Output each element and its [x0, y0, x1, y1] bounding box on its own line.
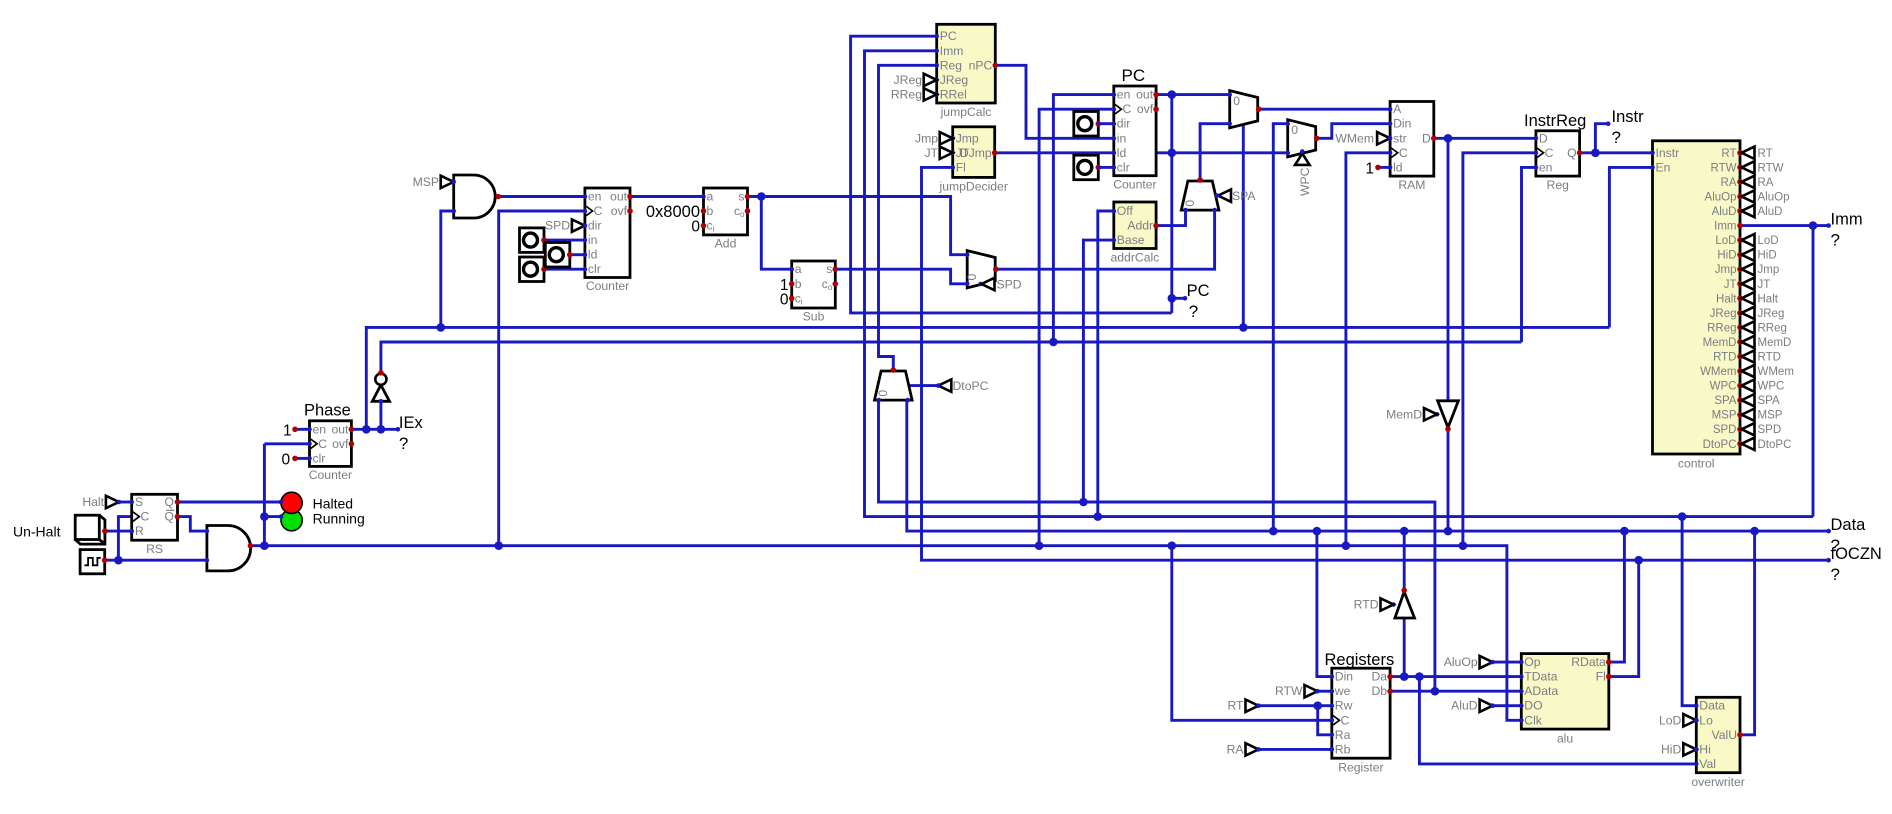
svg-text:Halt: Halt — [1716, 293, 1737, 305]
svg-text:WPC: WPC — [1298, 167, 1312, 196]
svg-text:WMem: WMem — [1335, 131, 1374, 145]
wire: addrCalc.Addr to SPA mux in0 — [1156, 210, 1185, 225]
button Un-Halt — [13, 515, 108, 544]
block addrCalc — [1111, 202, 1160, 265]
svg-text:Addr: Addr — [1127, 219, 1153, 233]
svg-text:RReg: RReg — [1707, 322, 1736, 334]
svg-text:C: C — [1341, 713, 1350, 727]
svg-text:Halt: Halt — [1758, 293, 1779, 305]
svg-text:AluD: AluD — [1758, 206, 1783, 218]
svg-text:dir: dir — [1117, 117, 1131, 131]
button B2 (SP counter clr) — [520, 257, 547, 282]
svg-text:out: out — [331, 422, 349, 436]
tunnel SPA (mux select) — [1215, 189, 1257, 203]
svg-text:RRel: RRel — [940, 87, 967, 101]
wire: RT tunnel to Register.Rw and Ra — [1259, 701, 1332, 734]
svg-text:ovf: ovf — [332, 437, 349, 451]
svg-text:b: b — [795, 277, 802, 291]
control output tunnels — [1742, 147, 1794, 451]
svg-text:Rb: Rb — [1335, 742, 1351, 756]
svg-text:ld: ld — [1117, 146, 1127, 160]
svg-text:addrCalc: addrCalc — [1111, 251, 1160, 265]
block control (instruction decoder) — [1650, 141, 1743, 471]
tunnel AluOp (to alu.Op) — [1444, 655, 1495, 669]
svg-text:DtoPC: DtoPC — [953, 379, 989, 393]
svg-text:JReg: JReg — [940, 73, 968, 87]
wire: Imm net (control.Imm, k35 bus, jumpCalc.Imm, addrCalc.Off, overwriter.Data) — [865, 51, 1831, 706]
tunnel MSP (to AND gate) — [413, 175, 456, 189]
label Halted / Running — [313, 495, 365, 526]
svg-text:Fl: Fl — [1596, 670, 1606, 684]
wire: mux1 out to RAM.A — [1259, 108, 1391, 111]
svg-text:Halt: Halt — [82, 495, 104, 509]
wire: AluOp tunnel to alu.Op — [1493, 661, 1522, 664]
svg-text:?: ? — [1189, 302, 1198, 321]
svg-text:AluD: AluD — [1451, 699, 1478, 713]
svg-text:s: s — [826, 262, 832, 276]
svg-text:DtoPC: DtoPC — [1758, 439, 1792, 451]
counter PC — [1112, 66, 1159, 192]
AND gate (clock gate) — [205, 526, 254, 571]
svg-text:IEx: IEx — [399, 414, 424, 432]
svg-text:Imm: Imm — [1831, 210, 1863, 228]
wire: SP counter out to Add.a — [630, 195, 704, 198]
svg-text:Jmp: Jmp — [1758, 264, 1780, 276]
svg-text:Off: Off — [1117, 204, 1134, 218]
wire: fOCZN net (k38 bus, jumpDecider.Fl, alu.Fl) — [922, 167, 1831, 676]
svg-text:1: 1 — [1365, 160, 1374, 177]
svg-text:Un-Halt: Un-Halt — [13, 524, 61, 540]
svg-text:JT: JT — [924, 146, 938, 160]
svg-text:RS: RS — [146, 542, 163, 556]
constant 0 (Phase.clr) — [282, 451, 298, 468]
svg-text:WPC: WPC — [1758, 381, 1785, 393]
svg-text:0: 0 — [1183, 200, 1197, 207]
svg-text:overwriter: overwriter — [1691, 775, 1745, 789]
wire: Sub.s to SPD mux in1 — [835, 269, 967, 284]
block alu — [1519, 654, 1612, 746]
svg-text:Ra: Ra — [1335, 728, 1351, 742]
svg-text:RData: RData — [1571, 655, 1606, 669]
clock CLK1 — [80, 550, 107, 574]
constant 1 (Phase.en) — [283, 422, 298, 439]
svg-text:PC: PC — [940, 29, 957, 43]
svg-text:Jmp: Jmp — [956, 131, 979, 145]
svg-text:DO: DO — [1524, 699, 1542, 713]
svg-text:RTD: RTD — [1758, 352, 1781, 364]
svg-text:s: s — [738, 190, 744, 204]
svg-text:MSP: MSP — [1758, 410, 1783, 422]
svg-text:HiD: HiD — [1758, 250, 1777, 262]
svg-text:Jmp: Jmp — [915, 131, 938, 145]
mux M1 (RAM address select) — [1230, 91, 1258, 128]
svg-text:TData: TData — [1524, 670, 1557, 684]
svg-text:RT: RT — [1227, 699, 1244, 713]
subtractor Sub (decrement) — [789, 261, 838, 324]
svg-text:JT: JT — [1724, 279, 1737, 291]
svg-text:JReg: JReg — [894, 73, 922, 87]
svg-text:Din: Din — [1393, 117, 1411, 131]
svg-text:SPA: SPA — [1758, 395, 1780, 407]
svg-text:PC: PC — [1187, 282, 1210, 300]
svg-text:Reg: Reg — [1547, 178, 1569, 192]
svg-text:JReg: JReg — [1758, 308, 1785, 320]
tunnel MemD — [1386, 407, 1437, 421]
svg-text:S: S — [135, 495, 143, 509]
tunnel JT (to jumpDecider) — [924, 146, 952, 160]
block jumpDecider — [938, 127, 1007, 194]
probe Instr — [1612, 108, 1645, 147]
wire: SPA mux out to mux1.in1 — [1200, 124, 1230, 181]
svg-text:1: 1 — [283, 422, 292, 439]
svg-text:0: 0 — [780, 291, 789, 308]
svg-text:Registers: Registers — [1325, 651, 1395, 669]
tunnel WPC (mux2 select) — [1295, 149, 1312, 196]
wire: nPC from jumpCalc to PC counter in — [995, 65, 1114, 138]
svg-text:Halted: Halted — [313, 495, 353, 511]
svg-text:Q: Q — [165, 495, 174, 509]
svg-text:Reg: Reg — [940, 58, 962, 72]
svg-text:C: C — [1123, 102, 1132, 116]
tunnel RTW (to Register.we) — [1275, 684, 1320, 698]
counter SP (stack pointer) — [583, 188, 633, 293]
probe fOCZN — [1831, 545, 1882, 584]
wire: RTW tunnel to Register.we — [1318, 690, 1332, 693]
constant 1 (RAM.ld) — [1365, 160, 1380, 177]
svg-text:RReg: RReg — [891, 87, 922, 101]
svg-text:ld: ld — [588, 248, 598, 262]
svg-text:D: D — [1422, 131, 1431, 145]
tunnel SPD (to SP counter dir) — [545, 219, 585, 233]
adder Add (SP + 0x8000) — [701, 188, 750, 251]
tunnel HiD (to overwriter.Hi) — [1661, 742, 1699, 756]
svg-text:LoD: LoD — [1659, 713, 1682, 727]
svg-text:RT: RT — [1758, 148, 1773, 160]
svg-text:Din: Din — [1335, 670, 1353, 684]
svg-text:?: ? — [1831, 565, 1840, 584]
probe Data — [1831, 516, 1867, 555]
wire: Instr net (InstrReg.Q to control.Instr and probe) — [1580, 121, 1653, 157]
svg-text:Phase: Phase — [304, 401, 351, 419]
svg-text:Q: Q — [165, 510, 174, 524]
svg-text:clr: clr — [313, 451, 326, 465]
svg-text:jumpDecider: jumpDecider — [938, 180, 1007, 194]
register file Registers — [1325, 651, 1395, 775]
svg-text:MemD: MemD — [1386, 407, 1422, 421]
svg-text:Counter: Counter — [586, 279, 629, 293]
svg-text:RReg: RReg — [1758, 322, 1787, 334]
svg-text:en: en — [1117, 88, 1131, 102]
svg-text:Imm: Imm — [940, 44, 964, 58]
button B3 (SP counter ld) — [545, 243, 572, 268]
svg-text:SPD: SPD — [1758, 424, 1782, 436]
svg-text:RTW: RTW — [1275, 684, 1303, 698]
wire: mux2 out to RAM.Din — [1318, 124, 1391, 139]
svg-text:LoD: LoD — [1758, 235, 1779, 247]
wire: RAM.D to InstrReg.D and MemD driver — [1434, 134, 1536, 401]
flip-flop RS — [129, 494, 180, 556]
svg-text:Hi: Hi — [1699, 742, 1711, 756]
tunnel RReg (to jumpCalc.RRel) — [891, 87, 937, 101]
svg-text:a: a — [795, 262, 802, 276]
tunnel AluD (to alu.DO) — [1451, 699, 1495, 713]
svg-text:Rw: Rw — [1335, 699, 1353, 713]
svg-text:Jmp: Jmp — [1715, 264, 1737, 276]
svg-text:RTD: RTD — [1713, 352, 1736, 364]
svg-text:b: b — [707, 204, 714, 218]
svg-text:AluD: AluD — [1712, 206, 1737, 218]
button B4 (PC dir) — [1074, 112, 1114, 137]
svg-text:0: 0 — [282, 451, 291, 468]
constant 0x8000 (Add.b) — [646, 203, 706, 221]
svg-text:Instr: Instr — [1612, 108, 1645, 126]
wire: RA tunnel to Register.Rb — [1259, 748, 1332, 751]
wire: Phase counter constants — [295, 429, 310, 458]
LED Running (green) — [279, 510, 303, 531]
driver RTD (register T to Data bus) — [1391, 588, 1414, 619]
constant 1 (Sub.b) — [780, 277, 795, 294]
svg-text:?: ? — [1612, 128, 1621, 147]
svg-text:?: ? — [399, 434, 408, 453]
svg-text:RT: RT — [1721, 148, 1736, 160]
tunnel Halt (to RS.S) — [82, 495, 121, 509]
svg-text:Running: Running — [313, 510, 365, 526]
constant 0 (Add.ci) — [691, 219, 706, 236]
tunnel RTD — [1354, 598, 1394, 612]
tunnel RT (to Register.Rw) — [1227, 699, 1260, 713]
svg-text:a: a — [707, 190, 714, 204]
LED Halted (red) — [279, 492, 303, 513]
svg-text:Instr: Instr — [1656, 146, 1680, 160]
svg-text:En: En — [1656, 160, 1671, 174]
svg-text:out: out — [1136, 88, 1154, 102]
svg-text:MSP: MSP — [1712, 410, 1737, 422]
svg-text:JT: JT — [1758, 279, 1771, 291]
wire: WMem tunnel to RAM.str — [1376, 137, 1390, 140]
svg-text:MSP: MSP — [413, 175, 439, 189]
svg-text:en: en — [313, 422, 327, 436]
probe PC — [1187, 282, 1210, 321]
inverter NOT (IEx to nIEx) — [372, 370, 389, 404]
svg-text:in: in — [588, 233, 598, 247]
svg-text:dir: dir — [588, 219, 602, 233]
mux SPA (stack pointer address) — [1181, 181, 1219, 210]
block jumpCalc — [934, 24, 998, 119]
svg-text:clr: clr — [1117, 160, 1130, 174]
memory RAM — [1388, 102, 1437, 193]
svg-text:in: in — [1117, 131, 1127, 145]
svg-text:AluOp: AluOp — [1444, 655, 1478, 669]
svg-text:Da: Da — [1372, 670, 1388, 684]
svg-text:Sub: Sub — [803, 310, 825, 324]
svg-text:fOCZN: fOCZN — [1831, 545, 1882, 563]
svg-text:RTW: RTW — [1758, 162, 1784, 174]
svg-text:Db: Db — [1372, 684, 1388, 698]
wire: AluD tunnel to alu.DO — [1493, 704, 1522, 707]
svg-text:RA: RA — [1721, 177, 1737, 189]
svg-text:0: 0 — [1233, 94, 1240, 108]
svg-text:MemD: MemD — [1758, 337, 1792, 349]
svg-text:RA: RA — [1758, 177, 1774, 189]
wire: clock net (AND output bus to all C pins) — [104, 109, 1536, 720]
wire: DJmp from jumpDecider to PC.ld — [995, 151, 1114, 154]
svg-text:RTD: RTD — [1354, 598, 1379, 612]
svg-text:?: ? — [1831, 230, 1840, 249]
wire: MSP AND gate inputs/output — [443, 182, 585, 197]
svg-text:PC: PC — [1122, 66, 1146, 85]
svg-text:AluOp: AluOp — [1758, 192, 1790, 204]
svg-text:Clk: Clk — [1524, 713, 1543, 727]
counter Phase — [304, 401, 354, 482]
svg-text:RTW: RTW — [1711, 162, 1737, 174]
register InstrReg — [1524, 112, 1586, 192]
tunnel LoD (to overwriter.Lo) — [1659, 713, 1699, 727]
svg-text:SPD: SPD — [997, 278, 1022, 292]
svg-text:WMem: WMem — [1758, 366, 1794, 378]
svg-text:en: en — [1539, 160, 1553, 174]
svg-text:0: 0 — [691, 219, 700, 236]
svg-text:control: control — [1678, 457, 1715, 471]
svg-text:ld: ld — [1393, 160, 1403, 174]
svg-text:C: C — [318, 437, 327, 451]
svg-text:ValU: ValU — [1711, 728, 1737, 742]
svg-text:WPC: WPC — [1710, 381, 1737, 393]
tunnel WMem (to RAM.str) — [1335, 131, 1390, 145]
svg-text:RAM: RAM — [1398, 178, 1425, 192]
svg-text:nPC: nPC — [969, 58, 993, 72]
svg-text:C: C — [1545, 146, 1554, 160]
svg-text:C: C — [1399, 146, 1408, 160]
wire: inverted IEx net (k23 bus to PC.en and InstrReg.en) — [377, 95, 1536, 434]
svg-text:C: C — [141, 510, 150, 524]
button B1 (SP counter in) — [520, 228, 547, 253]
svg-text:Val: Val — [1699, 757, 1716, 771]
AND gate (MSP and IEx) — [451, 175, 501, 218]
wire: Db bus net (k34, Register.Db to DtoPC.in0 and addrCalc.Base) — [879, 240, 1440, 695]
svg-text:0: 0 — [965, 274, 979, 281]
svg-text:Data: Data — [1831, 516, 1867, 534]
svg-text:R: R — [135, 524, 144, 538]
svg-text:Register: Register — [1338, 761, 1383, 775]
wire: Register Da to alu.TData, RTD driver, overwriter.Val — [1390, 618, 1696, 764]
svg-text:DtoPC: DtoPC — [1703, 439, 1737, 451]
tunnel SPD (mux select) — [982, 278, 1022, 292]
svg-text:DJmp: DJmp — [960, 146, 992, 160]
tunnel DtoPC (mux select) — [936, 379, 989, 393]
svg-text:AData: AData — [1524, 684, 1558, 698]
svg-text:LoD: LoD — [1715, 235, 1736, 247]
wire: SPD mux out to SPA mux in1 — [995, 210, 1214, 269]
wire: Add.s to Sub.a and SPD mux in0 — [748, 192, 968, 269]
svg-text:AluOp: AluOp — [1705, 192, 1737, 204]
svg-text:clr: clr — [588, 262, 601, 276]
svg-text:JReg: JReg — [1710, 308, 1737, 320]
wire: jumpCalc.Reg from DtoPC mux output — [879, 65, 937, 370]
svg-text:en: en — [588, 190, 602, 204]
svg-text:jumpCalc: jumpCalc — [940, 105, 992, 119]
svg-text:MemD: MemD — [1703, 337, 1737, 349]
wire: DtoPC mux select to tunnel — [910, 384, 939, 387]
svg-text:HiD: HiD — [1717, 250, 1736, 262]
wire: Data bus net (k36) — [907, 124, 1831, 735]
svg-text:Base: Base — [1117, 233, 1145, 247]
svg-text:Counter: Counter — [309, 468, 352, 482]
svg-text:A: A — [1393, 102, 1402, 116]
probe IEx — [399, 414, 424, 453]
tunnel RA (to Register.Rb) — [1227, 742, 1261, 756]
svg-text:0: 0 — [876, 390, 890, 397]
block overwriter — [1691, 697, 1745, 789]
svg-text:SPD: SPD — [545, 219, 570, 233]
svg-text:0: 0 — [1291, 123, 1298, 137]
svg-text:Data: Data — [1699, 699, 1725, 713]
wire: SP counter buttons and SPD tunnel — [544, 226, 585, 270]
probe Imm — [1831, 210, 1863, 249]
tunnel Jmp (to jumpDecider) — [915, 131, 953, 145]
svg-text:str: str — [1393, 131, 1407, 145]
svg-text:Op: Op — [1524, 655, 1540, 669]
svg-text:out: out — [610, 190, 628, 204]
svg-text:SPA: SPA — [1714, 395, 1736, 407]
wire: IEx net (Phase.out, k22 bus to control.En) — [351, 120, 1652, 434]
wire: RS flip-flop connections — [104, 502, 281, 531]
button B5 (PC clr) — [1074, 155, 1114, 180]
svg-text:Q: Q — [1567, 146, 1576, 160]
driver MemD (RAM data to Data bus) — [1435, 401, 1459, 432]
constant 0 (Sub.ci) — [780, 291, 795, 308]
wire: Register Db to alu.AData — [1390, 690, 1521, 693]
wire: PC value net (PC.out bus, probe, jumpCalc.PC, mux1.in0, mux2 select) — [851, 36, 1303, 313]
svg-text:ovf: ovf — [1137, 102, 1154, 116]
svg-text:Fl: Fl — [956, 160, 966, 174]
svg-text:alu: alu — [1557, 732, 1573, 746]
svg-text:we: we — [1334, 684, 1351, 698]
svg-text:C: C — [594, 204, 603, 218]
svg-text:Imm: Imm — [1714, 221, 1736, 233]
svg-text:RA: RA — [1227, 742, 1245, 756]
svg-text:ovf: ovf — [611, 204, 628, 218]
mux DtoPC — [875, 371, 913, 400]
svg-text:WMem: WMem — [1700, 366, 1736, 378]
svg-text:Add: Add — [715, 237, 737, 251]
svg-text:Counter: Counter — [1113, 178, 1156, 192]
tunnel JReg (to jumpCalc) — [894, 73, 937, 87]
mux SPD (stack pointer displayed) — [965, 251, 999, 288]
wire: RAM ld constant — [1378, 166, 1390, 169]
svg-text:D: D — [1539, 131, 1548, 145]
svg-text:SPA: SPA — [1232, 189, 1256, 203]
svg-text:SPD: SPD — [1713, 424, 1737, 436]
svg-text:InstrReg: InstrReg — [1524, 112, 1586, 130]
svg-text:HiD: HiD — [1661, 742, 1682, 756]
mux M2 (RAM data select) — [1288, 120, 1316, 157]
svg-text:Lo: Lo — [1699, 713, 1713, 727]
